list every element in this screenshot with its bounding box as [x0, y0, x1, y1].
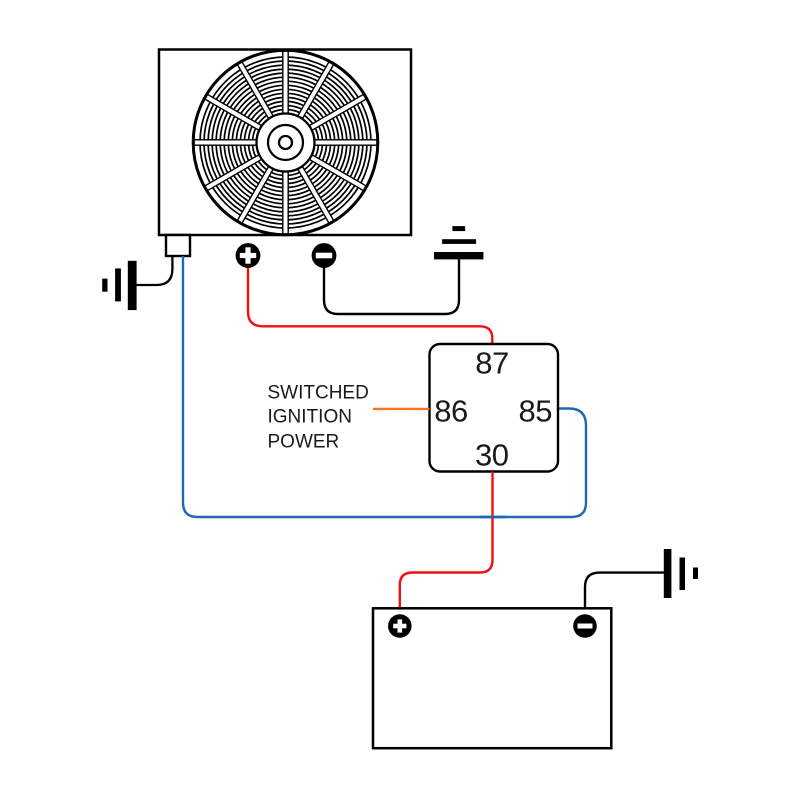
- svg-text:85: 85: [519, 394, 552, 429]
- fan hub: [257, 114, 315, 172]
- svg-text:IGNITION: IGNITION: [268, 407, 352, 428]
- svg-text:POWER: POWER: [268, 432, 340, 453]
- svg-text:86: 86: [434, 394, 467, 429]
- svg-text:SWITCHED: SWITCHED: [268, 383, 369, 404]
- wire: relay 30 to battery positive (red): [400, 472, 493, 610]
- ground G1: [102, 261, 136, 310]
- fan outer rim: [193, 50, 378, 235]
- fan blade rings: [200, 57, 371, 228]
- ground G3: [664, 549, 698, 598]
- relay K1: [430, 344, 559, 472]
- svg-text:87: 87: [475, 346, 508, 381]
- fan shroud: [159, 50, 411, 236]
- label SWITCHED IGNITION POWER: [268, 383, 369, 453]
- wire: switched ignition power to relay 86 (orange): [373, 408, 430, 410]
- wire: fan connector to chassis ground (black): [137, 256, 173, 285]
- fan positive terminal: [236, 243, 261, 268]
- wire: relay 85 to fan connector (blue): [183, 256, 586, 517]
- fan negative terminal: [312, 243, 337, 268]
- fan connector: [166, 235, 190, 256]
- battery negative terminal: [573, 614, 597, 638]
- fan spokes: [194, 51, 377, 234]
- wire junction: blue over red crossing: [480, 516, 506, 518]
- wire: fan positive to relay 87 (red): [248, 262, 492, 345]
- svg-text:30: 30: [475, 438, 509, 473]
- wire: battery negative to ground G3 (black): [585, 573, 664, 609]
- ground G2: [434, 226, 483, 259]
- wire: fan negative to ground G2 (black): [324, 260, 459, 315]
- battery positive terminal: [388, 614, 412, 638]
- battery BT1: [373, 608, 611, 748]
